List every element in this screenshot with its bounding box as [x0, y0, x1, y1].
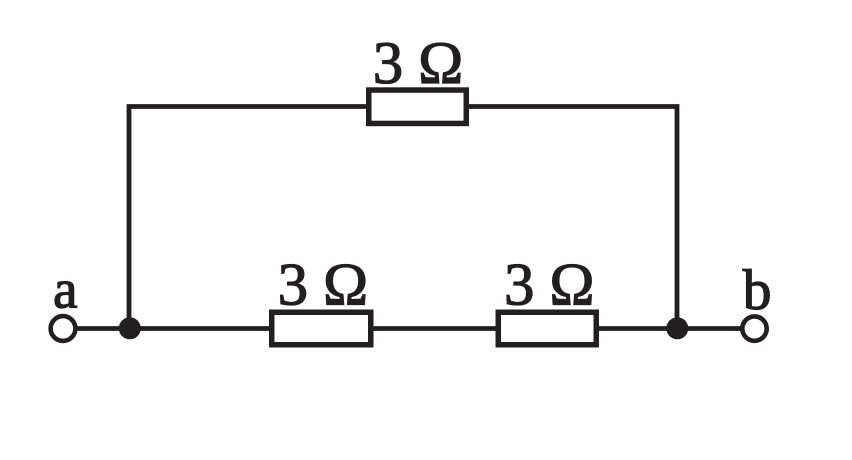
svg-text:3 Ω: 3 Ω — [278, 252, 368, 319]
svg-text:b: b — [743, 259, 772, 322]
svg-text:a: a — [53, 258, 77, 319]
svg-text:3 Ω: 3 Ω — [373, 30, 463, 97]
svg-text:3 Ω: 3 Ω — [504, 252, 594, 319]
